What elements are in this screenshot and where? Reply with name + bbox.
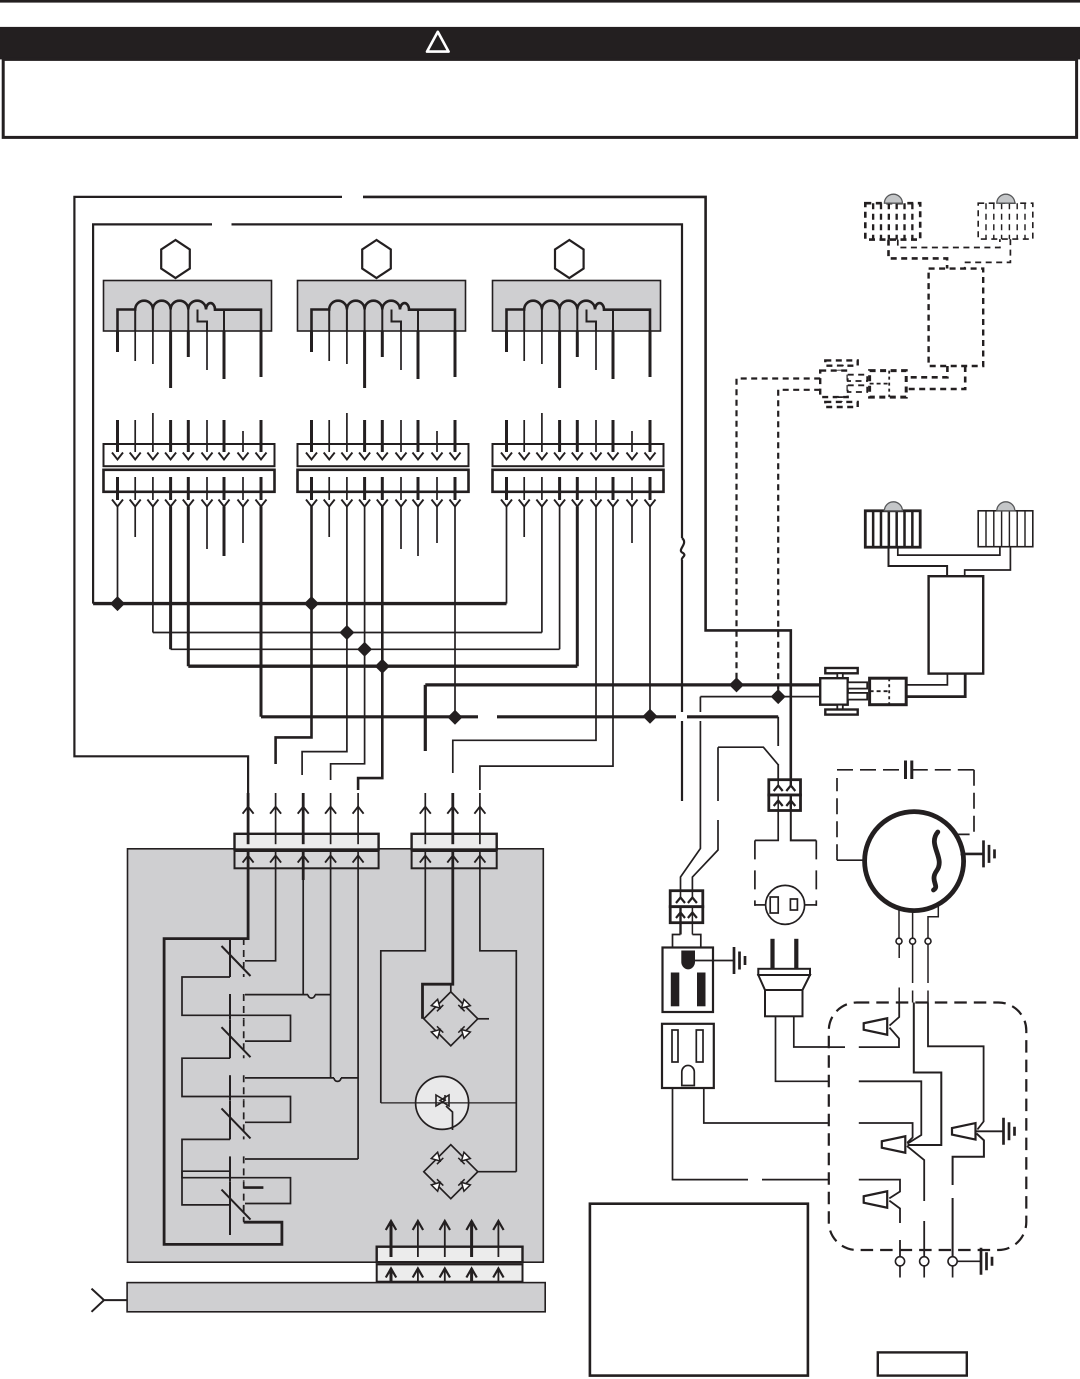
wire: left electrode outer lead	[889, 547, 948, 576]
connector P2 pin wires with arrows	[424, 793, 426, 834]
oven igniter electrode left (dashed)	[865, 203, 920, 239]
grounded outlet body	[663, 948, 714, 1013]
unit 2 lead wires below body	[310, 331, 313, 352]
bridge D1 diodes	[431, 999, 443, 1011]
wire: plug left lead to igniter box	[776, 1016, 829, 1081]
wire: unit3 pin6 down to bend, feeds connector P2 pin2	[453, 507, 596, 774]
wire: unit2 pin8 stub	[436, 507, 438, 544]
wire: motor lead 3 into box to spark gap G4	[928, 1003, 984, 1130]
wire: dashed module output 2	[906, 366, 965, 389]
wire: motor terminal leads down to surface igniter box	[898, 944, 900, 1002]
wire: lower outlet right lead to igniter box	[704, 1088, 829, 1123]
wire: unit2 pin6 stub	[400, 507, 402, 550]
wire: jog lead to 4-pin connector right side	[718, 747, 778, 764]
spark control board (gray)	[128, 849, 544, 1262]
wire: igniter terminal 3 to chassis ground	[957, 1260, 981, 1262]
wire: P1 pin1 into board to left rail	[164, 880, 282, 1244]
wire: motor lead 3 (jogged)	[928, 903, 938, 939]
appliance plug shoulder	[758, 975, 810, 990]
junction on bus L1 at unit2 pin1	[304, 596, 319, 611]
wire: unit1 pin7 stub	[223, 507, 226, 557]
surface igniter module enclosure (dashed rounded box)	[829, 1003, 1027, 1251]
switch S4 lower plates to bottom bracket	[229, 1205, 231, 1235]
wire: spark gap G1 output to plug lead wire	[829, 1028, 899, 1048]
motor terminal 3	[925, 938, 931, 944]
triac Q1 circle	[416, 1076, 469, 1129]
igniter terminal 1	[895, 1257, 904, 1266]
chassis ground at igniter terminals	[981, 1248, 992, 1275]
warning triangle icon	[427, 32, 449, 52]
gas valve stem top	[837, 366, 843, 371]
gas valve body	[820, 678, 848, 705]
surface burner unit 1 body (gray)	[104, 281, 272, 332]
connector P4 pin arrows	[777, 780, 779, 786]
wire: dashed module output 1	[906, 366, 947, 377]
wire: unit1 pin2 stub	[134, 507, 136, 538]
wire: spark gap G2 output down to igniter terminal 2	[907, 1146, 924, 1257]
wire: unit2 pin5 down to step bend, to connector P1 pin5	[358, 507, 382, 791]
appliance plug body	[765, 990, 803, 1016]
bus L4 (tie of unit pin5s)	[188, 665, 577, 668]
oven control module (white box)	[590, 1204, 808, 1376]
igniter terminal 2	[920, 1257, 929, 1266]
connector P5 housing (2x2)	[670, 891, 703, 907]
broiler igniter electrode left	[865, 511, 920, 547]
wire: unit3 pin5 down, right end of bus L4	[576, 507, 579, 667]
bus L5 from connector P2 pin1 to gas valve	[425, 685, 820, 751]
unit 1 lead wires below body	[116, 331, 119, 352]
wire: dashed valve lead to bus L6	[778, 390, 820, 697]
wire: spark gap G4 to chassis ground	[976, 1130, 1003, 1132]
switch S2 lower contact line with hop	[245, 1077, 358, 1079]
rotary switch S1 contacts	[229, 938, 231, 977]
switch S4 plates upper segment	[229, 1156, 231, 1181]
pilot light receptacle (circle)	[766, 885, 805, 924]
ribbon cable arrow	[92, 1289, 128, 1312]
igniter dome left	[884, 502, 902, 511]
valve mating connector	[870, 371, 907, 398]
wire: capacitor loop into motor left	[837, 859, 864, 861]
junction on bus L6 with dashed oven igniter lead	[771, 689, 786, 704]
igniter dome right (dashed section)	[997, 194, 1015, 203]
spark gap G2	[882, 1136, 906, 1153]
terminal strip unit 3 row 2	[493, 470, 664, 492]
wire: dashed right electrode outer lead	[965, 239, 1011, 269]
receptacle slot right	[790, 899, 797, 910]
bus L6 to gas valve lower terminal	[700, 696, 820, 698]
wire: P4 to pilot receptacle dashed box left	[755, 811, 778, 841]
hop on S2 lower contact line	[334, 1078, 341, 1082]
burner coil winding unit 2	[312, 301, 456, 331]
gas valve terminal pin 1	[848, 375, 868, 381]
bus L2 (tie of unit pin3s)	[153, 632, 542, 634]
unit 2 strip wire stubs and arrows	[310, 444, 313, 452]
igniter dome right	[997, 502, 1015, 511]
hex nut (mounting) above left surface burner	[161, 240, 190, 278]
unit 1 strip wire stubs and arrows	[116, 444, 119, 452]
wire: dashed left electrode outer lead	[889, 240, 948, 269]
gas valve terminal pin 1	[848, 682, 868, 688]
chassis ground at motor	[984, 840, 995, 867]
terminal strip unit 2 row 2	[298, 470, 469, 492]
cascade link S3 to S4 (left bracket)	[182, 1171, 230, 1205]
valve connector latch line	[870, 383, 890, 385]
connector P2 housing row 1	[412, 834, 497, 850]
valve mating connector	[870, 678, 907, 705]
wire: P1 pin4 into board, tee on switch S2 lower contact line	[330, 880, 332, 1078]
unit 3 lead wires below body	[505, 331, 508, 352]
junction on bus L2 at unit2 pin3	[339, 625, 354, 640]
gas valve stem bottom	[837, 397, 843, 402]
broiler spark module	[929, 576, 984, 673]
wire: unit2 pin7 stub	[417, 507, 419, 557]
gas valve bottom bar	[825, 710, 857, 715]
chassis ground at spark gap G4	[1004, 1118, 1015, 1145]
gas valve stem bottom	[837, 705, 843, 710]
junction on bus L7 at unit2 pin9	[448, 710, 463, 725]
cascade link S1 to S2	[182, 977, 291, 1041]
wire: P5 collar to grounded outlet	[673, 935, 701, 948]
wire: module output 1 to valve connector	[906, 674, 947, 685]
wire: module output 2 to valve connector	[906, 674, 965, 697]
bus L1 (neutral tie of unit pin1s)	[93, 602, 506, 605]
wire: motor lead 1 into box to spark gap G1	[890, 1003, 900, 1026]
bridge D1 right stub	[478, 1018, 489, 1020]
valve connector latch line	[870, 690, 890, 692]
gas valve terminal pin 2	[848, 385, 868, 392]
motor winding squiggle	[934, 832, 940, 890]
valve connector split line	[888, 678, 890, 705]
switch S2 plates upper segment	[229, 994, 231, 1019]
gas valve bottom bar	[825, 402, 857, 407]
convection fan motor M1	[865, 812, 964, 911]
junction on bus L4 at unit2 pin5	[375, 659, 390, 674]
wire: P1 pin3 into board, tee on switch S1 lower contact line	[302, 880, 304, 995]
burner coil winding unit 3	[507, 301, 651, 331]
broiler igniter electrode right	[978, 511, 1033, 547]
wire: unit2 pin2 stub	[328, 507, 330, 538]
wire: bus L7 drop to connector P4 left pin	[777, 717, 779, 780]
lower outlet slot left	[672, 1030, 678, 1062]
cascade link S2 to S3	[182, 1058, 291, 1122]
wire: unit1 pin1 down to junction on bus L1	[117, 507, 119, 604]
wire: unit3 pin2 stub	[523, 507, 525, 538]
spark gap G3	[864, 1191, 888, 1208]
gas valve stem top	[837, 673, 843, 678]
wire: P4 to pilot receptacle dashed box right	[791, 811, 817, 841]
warning text box	[3, 59, 1076, 137]
warning banner bar	[0, 27, 1080, 60]
igniter terminal stubs	[899, 1266, 901, 1278]
coil tap wires inside unit 3	[523, 310, 525, 332]
appliance plug cap bar	[758, 969, 810, 975]
unit 3 strip wire stubs and arrows	[505, 444, 508, 452]
wire: unit3 pin8 stub	[631, 507, 633, 544]
gas valve body	[820, 371, 848, 398]
surface burner unit 3 body (gray)	[493, 281, 661, 332]
wire: spark gap G3 output down to igniter terminal 1	[889, 1201, 900, 1257]
bus L3 (tie of unit pin4s)	[171, 648, 560, 650]
wire: lower outlet left lead to igniter box	[673, 1088, 829, 1180]
connector P1 pin wires with arrows	[247, 793, 250, 834]
rotary switch S3 contacts	[229, 1100, 231, 1139]
wire: P2 pin1 into board, left loop rail to triac	[381, 880, 426, 1103]
connector P5 pin arrows	[680, 891, 682, 898]
wire: unit2 pin3 down to step bend, to connector P1 pin3	[302, 507, 347, 776]
switch S2 actuator slash	[222, 1027, 251, 1057]
wire: receptacle to enclosure right	[805, 904, 817, 906]
oven igniter electrode right (dashed)	[978, 203, 1033, 239]
wire: unit3 pin9 down to junction on bus L7	[649, 507, 651, 717]
rotary switch S2 contacts	[229, 1019, 231, 1058]
wire: unit1 pin5 down, corner to bus L4	[187, 507, 190, 667]
appliance plug prong left	[770, 939, 774, 970]
lower outlet slot right	[696, 1030, 703, 1062]
outlet slot left (filled)	[671, 973, 680, 1007]
bridge D2 diodes	[431, 1152, 443, 1164]
spark gap G1	[864, 1018, 888, 1035]
wire: inner box outline (with top gap)	[93, 224, 212, 603]
wire: unit3 pin3 down, right end of bus L2	[541, 507, 543, 633]
switch S4 short output stub	[244, 1186, 264, 1189]
igniter dome left (dashed section)	[884, 194, 902, 203]
oven spark module (dashed)	[929, 269, 984, 366]
receptacle slot left	[770, 897, 778, 913]
page top rule	[0, 0, 1080, 3]
connector P1 housing row 1	[235, 834, 379, 850]
wire: spark gap G4 output down to igniter terminal 3	[953, 1134, 984, 1257]
ribbon cable bar below board	[127, 1283, 545, 1312]
diode bridge D2	[424, 1145, 478, 1199]
switch S3 plates upper segment	[229, 1075, 231, 1100]
bus L7 (tie of unit pin9s) to 4-pin connector	[261, 715, 778, 718]
wire: inner box right edge below squiggle	[681, 560, 683, 712]
switch S1 actuator slash	[222, 946, 251, 976]
terminal strip unit 2 row 1	[298, 444, 469, 466]
cascade link S3 to S4	[182, 1139, 291, 1203]
hop on S1 lower contact line	[308, 995, 315, 999]
switch S3 lower contact line	[245, 1158, 358, 1160]
connector P2 housing row 2	[412, 851, 497, 868]
wire: bridge D2 right vertex to right rail	[478, 1171, 517, 1173]
wire: motor capacitor loop left	[837, 770, 906, 860]
wire: inner electrode bus	[898, 547, 1000, 555]
wire: unit2 pin1 down through bus junction to step bend, to connector P1 pin2	[276, 507, 312, 765]
wire: unit2 pin9 down to junction on bus L7	[454, 507, 456, 718]
motor terminal 1	[896, 938, 902, 944]
wire: P1 pin5 into board, tee on switch S3 lower contact line	[357, 880, 359, 1159]
switch S4 actuator slash	[222, 1190, 251, 1220]
wire: unit1 pin3 down, corner to bus L2	[152, 507, 154, 633]
wire: vertical lead down to 2-pin connector right pin	[692, 747, 718, 891]
connector P4 housing (2x2)	[769, 780, 801, 795]
gas valve top bar	[825, 668, 857, 673]
outlet slot right (filled)	[697, 973, 706, 1007]
appliance plug prong right	[794, 939, 798, 970]
igniter terminal 3	[948, 1257, 957, 1266]
wire: bus L6 left leg down to 2-pin connector	[681, 697, 701, 891]
wire through triac	[381, 1102, 517, 1104]
junction on bus L7 at unit3 pin9	[643, 709, 658, 724]
wire: unit3 pin7 down to bend, feeds connector P2 pin3	[480, 507, 613, 791]
wire: unit1 pin8 stub	[242, 507, 244, 544]
wire: P1 pin2 into board to switch S1 upper contact	[245, 880, 276, 961]
break symbol (squiggle) on inner box right edge	[681, 538, 685, 560]
wire: outlet ground lead	[695, 960, 734, 962]
wire: lower outlet right lead inside box to spark gap G2	[859, 1123, 913, 1143]
pilot receptacle dashed enclosure	[755, 840, 816, 906]
connector P1 housing row 2	[235, 851, 379, 868]
wire: outer chassis box outline (with top gap)	[74, 197, 342, 793]
wire: unit3 pin4 down, right end of bus L3	[559, 507, 561, 650]
wire: unit2 pin4 down to step bend, to connector P1 pin4	[331, 507, 365, 781]
hex nut (mounting) above right surface burner	[555, 240, 584, 278]
wire: dashed inner electrode bus	[898, 239, 1000, 247]
valve connector split line	[888, 371, 890, 398]
lower outlet ground hole	[682, 1065, 695, 1085]
wire: unit1 pin9 down, corner to bus L7	[260, 507, 263, 717]
wire: right electrode outer lead	[965, 547, 1011, 577]
capacitor C1	[906, 761, 912, 780]
wire: motor lead 2 into box, jog down to spark gap G2	[908, 1003, 942, 1146]
label plate (small box bottom right)	[878, 1352, 967, 1375]
spark gap G4	[952, 1123, 976, 1140]
triac gate lead	[446, 1106, 453, 1130]
outlet ground pin (filled)	[681, 951, 695, 970]
junction on bus L5 with dashed oven igniter lead	[729, 677, 744, 692]
wire: dashed valve lead to bus L5	[737, 379, 821, 685]
terminal strip unit 1 row 2	[104, 470, 275, 492]
bridge D1 top stub	[450, 984, 452, 992]
wire: plug left lead inside box down to spark gap G2	[859, 1081, 922, 1143]
connector P3 housing row 2	[377, 1264, 523, 1281]
wire: unit1 pin6 stub	[206, 507, 208, 550]
gas valve terminal pin 2	[848, 693, 868, 700]
triac symbol	[436, 1095, 449, 1106]
terminal strip unit 3 row 1	[493, 444, 664, 466]
burner coil winding unit 1	[118, 301, 262, 331]
rotary switch S4 contacts	[229, 1182, 231, 1221]
wire: motor capacitor loop right	[912, 770, 974, 835]
wire: motor lead 1	[898, 907, 900, 939]
switch S1 lower contact line with hop	[245, 994, 331, 996]
wire: P2 pin2 into board to diode bridge D1	[423, 880, 453, 1019]
wire: unit3 pin1 down, right end of bus L1	[506, 507, 508, 604]
wire: receptacle to enclosure left	[755, 904, 766, 906]
wire: motor to chassis ground	[961, 853, 984, 856]
connector P3 housing row 1	[377, 1247, 523, 1263]
coil tap wires inside unit 2	[328, 310, 330, 332]
chassis ground at outlet	[734, 947, 745, 974]
switch S3 actuator slash	[222, 1108, 251, 1138]
wire: unit1 pin4 down, corner to bus L3	[169, 507, 172, 650]
coil tap wires inside unit 1	[134, 310, 136, 332]
wire: lower outlet left lead inside box to spark gap G3	[859, 1180, 900, 1199]
wire: plug right lead to igniter box	[794, 1016, 829, 1047]
receptacle outlet body (lower)	[662, 1024, 714, 1088]
junction on bus L3 at unit2 pin4	[357, 642, 372, 657]
junction on bus L1 at unit1 pin1	[110, 596, 125, 611]
hex nut (mounting) above center surface burner	[362, 240, 391, 278]
terminal strip unit 1 row 1	[104, 444, 275, 466]
gas valve top bar (dashed alt)	[825, 360, 857, 365]
connector P3 pin wires with arrows	[390, 1221, 393, 1257]
wire: motor lead 2	[912, 910, 914, 938]
surface burner unit 2 body (gray)	[298, 281, 466, 332]
diode bridge D1	[424, 992, 478, 1046]
wire: P2 pin3 into board, right loop rail	[480, 880, 516, 1172]
motor terminal 2	[910, 938, 916, 944]
